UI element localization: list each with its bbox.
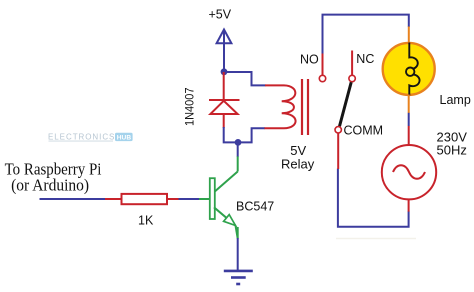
watermark ElectronicsHub logo bbox=[48, 133, 133, 142]
wire top rail NO to lamp (blue) bbox=[323, 15, 409, 54]
wire COMM leg (red part) bbox=[337, 133, 339, 169]
transistor Q1 BC547 bbox=[210, 156, 238, 238]
relay coil L1 bbox=[282, 85, 296, 128]
wire relay coil bottom to junction (blue part) bbox=[238, 128, 265, 142]
wire junction to collector (blue) bbox=[237, 142, 239, 156]
node +5V junction bbox=[221, 68, 228, 75]
svg-text:NO: NO bbox=[300, 53, 319, 67]
svg-text:Relay: Relay bbox=[281, 156, 315, 171]
wire diode bottom to junction bbox=[224, 127, 238, 142]
COMM contact bbox=[335, 127, 341, 133]
wire node to relay coil top (blue part) bbox=[224, 72, 266, 85]
NO contact bbox=[319, 54, 325, 82]
wire resistor to base (red part) bbox=[167, 198, 179, 200]
svg-text:+5V: +5V bbox=[209, 8, 232, 22]
wire emitter to ground (blue) bbox=[237, 238, 239, 271]
wire input (blue) bbox=[40, 198, 106, 200]
svg-text:1N4007: 1N4007 bbox=[183, 87, 197, 126]
power supply +5V arrow bbox=[217, 30, 232, 44]
wire relay coil bottom lead (red part) bbox=[264, 127, 284, 129]
lamp bbox=[383, 43, 435, 96]
AC source V1 bbox=[382, 145, 436, 199]
svg-text:NC: NC bbox=[356, 52, 374, 66]
switch lever bbox=[340, 82, 352, 126]
ground symbol bbox=[224, 271, 253, 284]
diode D1 1N4007 bbox=[209, 72, 240, 128]
wire +5V arrow to node bbox=[223, 43, 225, 71]
relay core lines bbox=[302, 79, 308, 135]
NC contact bbox=[349, 51, 355, 82]
svg-text:BC547: BC547 bbox=[236, 200, 274, 214]
wire relay coil top lead (red part) bbox=[265, 84, 284, 86]
wire lamp to AC source (orange part) bbox=[408, 95, 410, 114]
svg-text:Lamp: Lamp bbox=[440, 93, 471, 107]
svg-text:COMM: COMM bbox=[344, 124, 384, 138]
svg-text:(or Arduino): (or Arduino) bbox=[11, 176, 89, 195]
wire input to resistor (red) bbox=[105, 198, 122, 200]
wire AC bottom (red part) bbox=[408, 199, 410, 212]
svg-text:HUB: HUB bbox=[117, 134, 132, 141]
wire lamp to AC source (blue part) bbox=[408, 113, 410, 126]
wire lamp top (orange) bbox=[408, 27, 410, 45]
resistor R1 1K bbox=[122, 194, 168, 204]
faint ghost line under bottom rail bbox=[336, 238, 416, 240]
svg-text:1K: 1K bbox=[138, 214, 154, 228]
wire lamp to AC source (red part) bbox=[408, 126, 410, 145]
wire resistor to base (blue part) bbox=[179, 198, 200, 200]
wire AC bottom to COMM (blue) bbox=[338, 169, 409, 227]
wire base lead (green part) bbox=[199, 198, 210, 200]
svg-text:50Hz: 50Hz bbox=[437, 143, 467, 158]
node collector junction bbox=[235, 139, 242, 146]
svg-text:ELECTRONICS: ELECTRONICS bbox=[48, 133, 115, 142]
